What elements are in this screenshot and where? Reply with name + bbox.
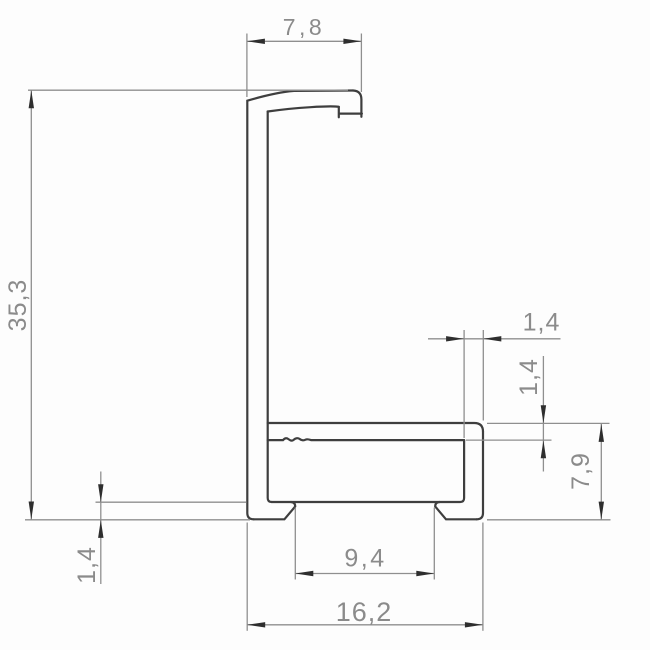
ext line 16,2 left [246,523,248,631]
ext line y=423 right [487,422,610,424]
arrow 7,8 right [343,39,361,44]
arrow 1,4 mr lower (up) [541,440,546,458]
ext line 7,8 left [246,34,248,98]
profile left foot [254,502,296,519]
svg-text:1,4: 1,4 [523,309,561,337]
dim line 1,4 mid-right [542,356,544,472]
arrow 16,2 left [247,622,265,627]
ext line 35,3 top [28,89,348,91]
profile lip underside [268,106,339,111]
ext line 9,4 right [433,508,435,580]
arrow 7,8 left [247,39,265,44]
dim line 9,4 [295,573,434,575]
arrow 35,3 top [29,90,34,108]
profile left wall inner [268,112,272,503]
svg-text:7,8: 7,8 [283,14,325,40]
dim line 35,3 [30,90,32,519]
svg-text:1,4: 1,4 [73,546,101,584]
ext line 7,8 right [360,34,362,93]
ext line y=519.8 right [487,519,611,521]
profile lip bottom and tooth [339,107,362,118]
dim line 7,8 [247,40,362,42]
ext line 9,4 left [294,508,296,580]
profile lip right edge [353,91,361,117]
profile lip top outer + left wall outer [247,91,353,520]
arrow 1,4 tr left (right-pointing) [446,336,464,341]
profile right outer wall [477,432,483,520]
ext line bottom y=519.8 left [25,519,250,521]
arrow 7,9 bottom (down) [599,502,604,520]
ext line 1,4 top-right outer x=483 [482,330,484,421]
ext line 1,4 bottom-left upper [96,501,247,503]
arrow 16,2 right [465,622,483,627]
arrow 1,4 bl upper (down) [98,484,103,502]
svg-text:7,9: 7,9 [567,452,595,490]
arrow 35,3 bottom [29,502,34,520]
svg-text:35,3: 35,3 [4,279,32,332]
arrow 1,4 tr right (left-pointing) [483,336,501,341]
profile channel top outer [268,423,483,432]
ext line 16,2 right [482,523,484,631]
svg-text:9,4: 9,4 [344,545,386,573]
arrow 7,9 top (up) [599,424,604,442]
profile right foot [435,502,476,519]
arrow 9,4 left [295,571,313,576]
dim line 1,4 top-right [428,338,561,340]
profile cavity bottom line + right inner wall [272,440,464,502]
arrow 9,4 right [416,571,434,576]
dim line 7,9 [600,424,602,520]
arrow 1,4 bl lower (up) [98,520,103,538]
profile channel top inner with break squiggle [268,438,464,440]
svg-text:1,4: 1,4 [515,358,543,396]
ext line y=440 right [466,439,552,441]
dim line 1,4 bottom-left [100,472,102,585]
dim line 16,2 [247,624,483,626]
ext line 1,4 top-right inner x=464 [463,330,465,438]
arrow 1,4 mr upper (down) [541,405,546,423]
svg-text:16,2: 16,2 [336,597,393,627]
